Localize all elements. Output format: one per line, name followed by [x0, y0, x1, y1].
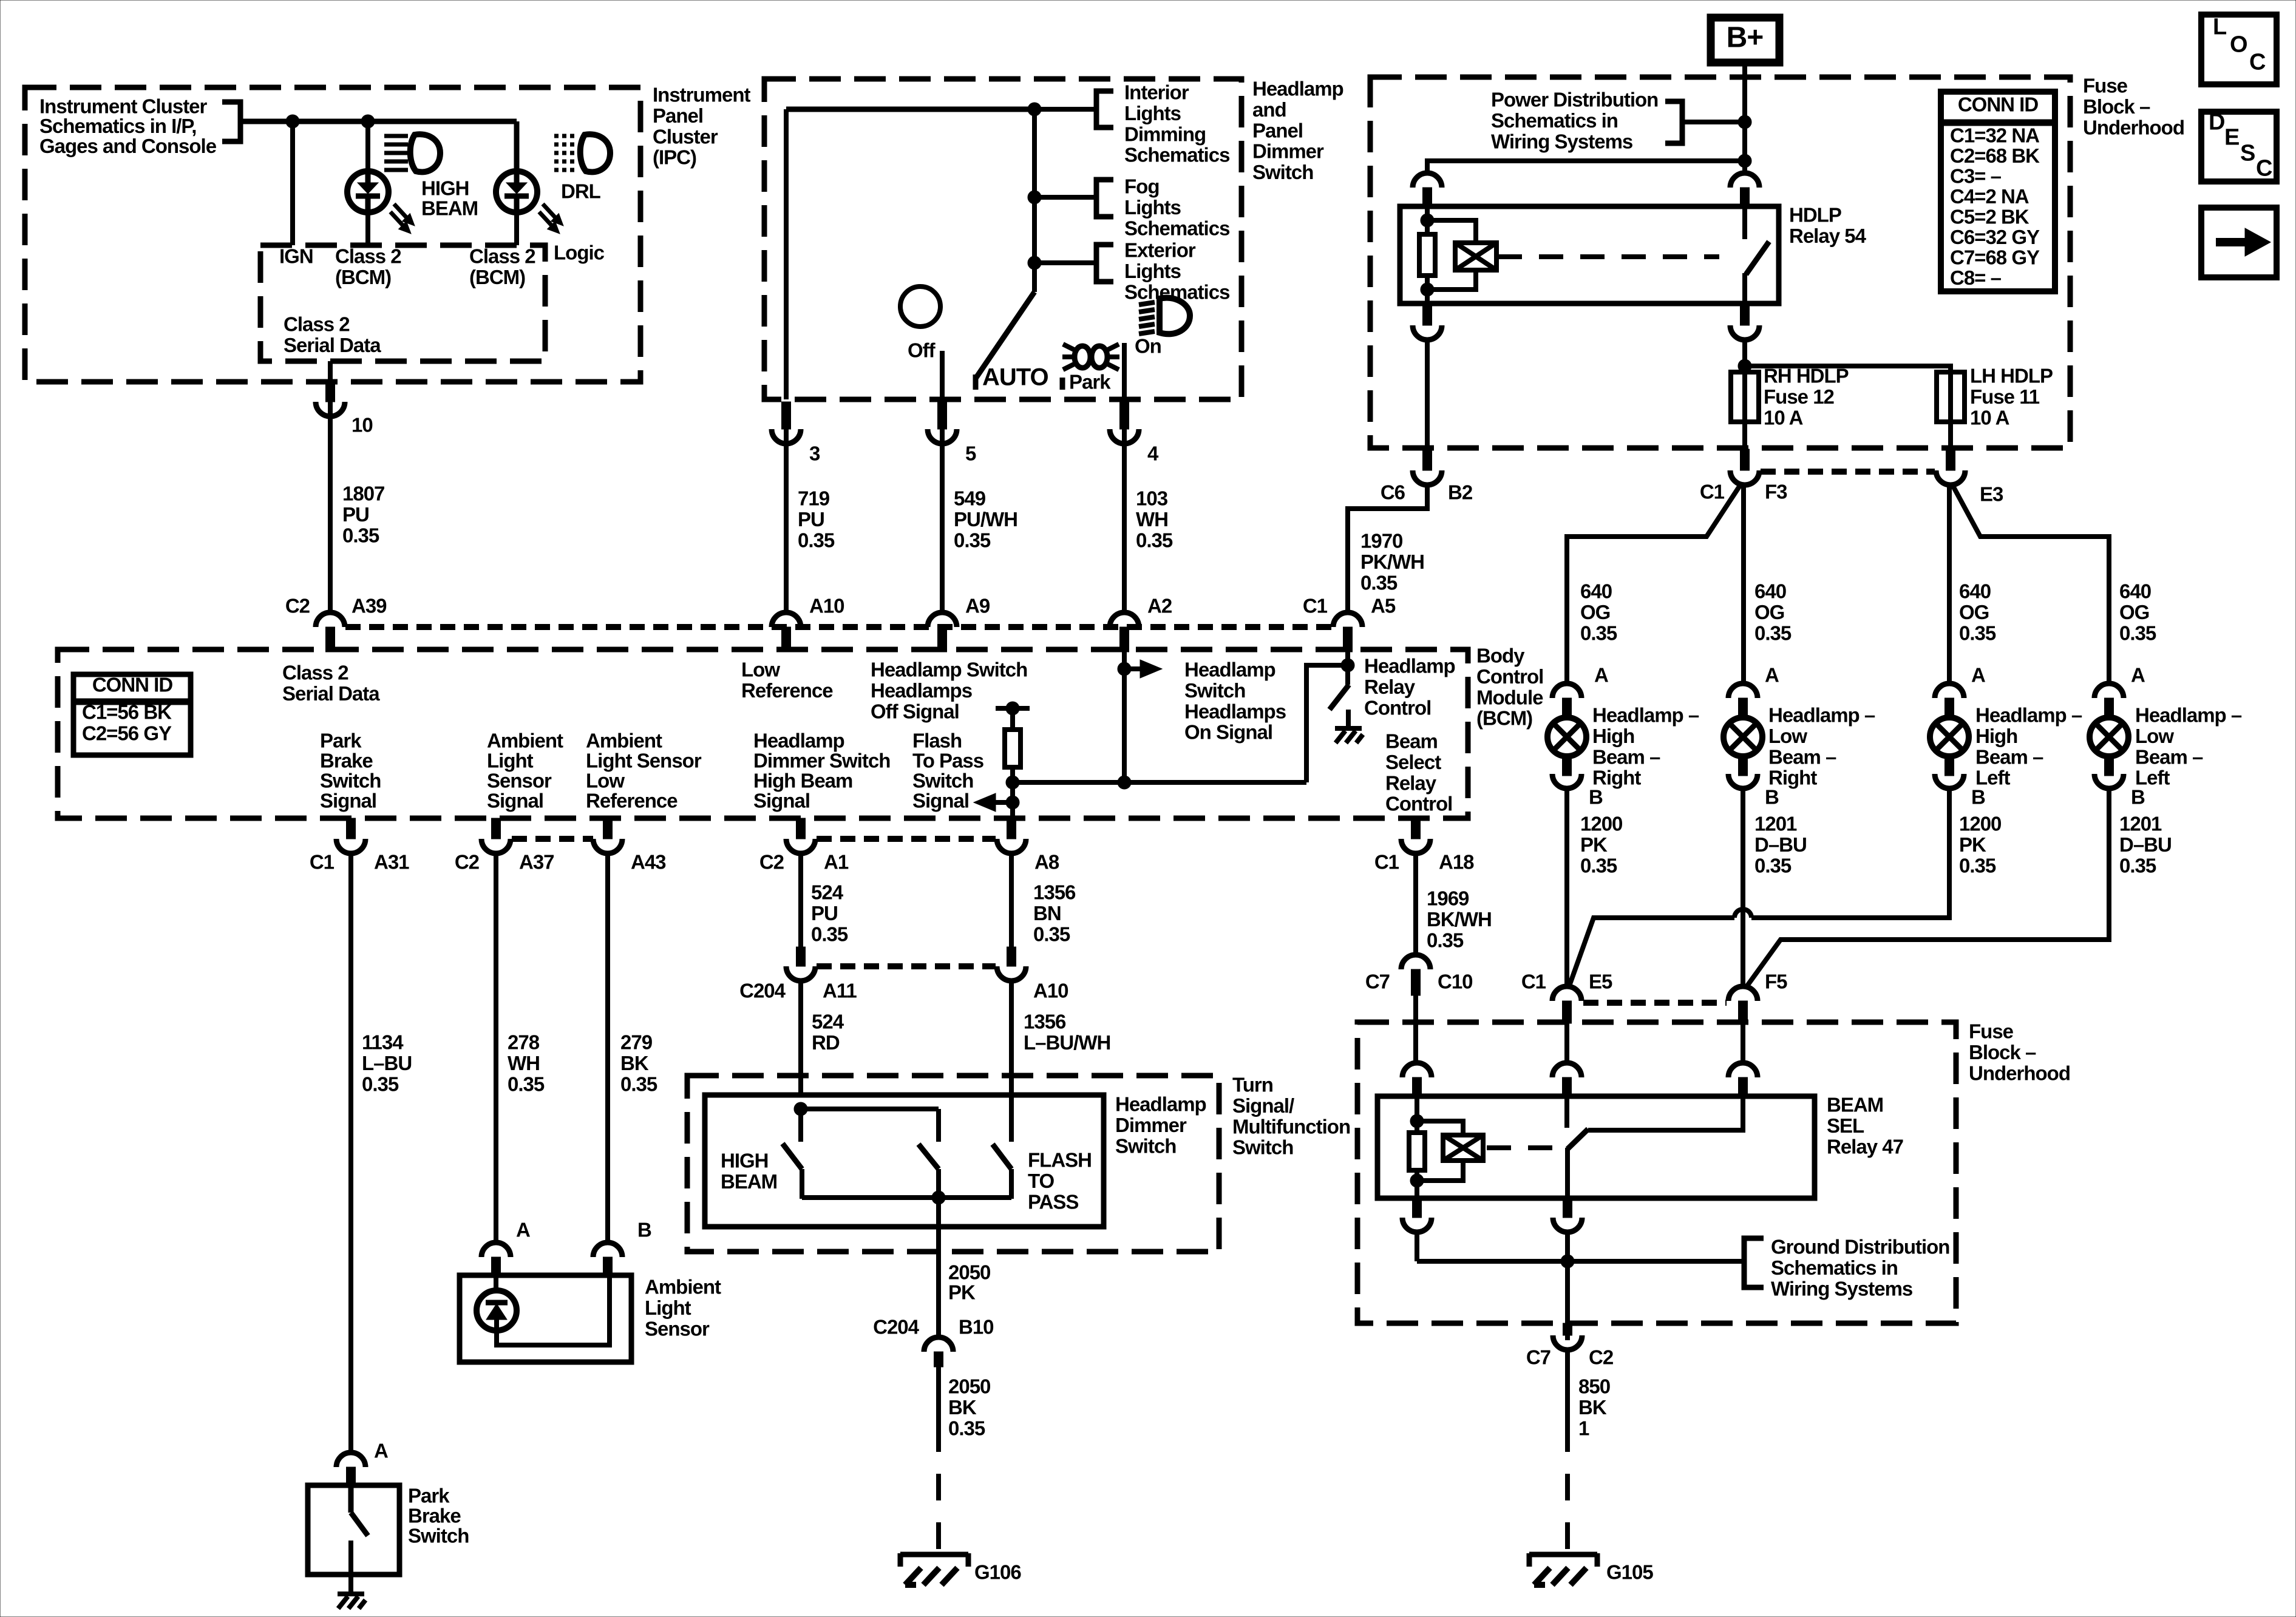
svg-text:On: On — [1135, 335, 1161, 358]
contact: middle fixed — [936, 1109, 941, 1142]
wire 1970 PK/WH 0.35 — [1348, 485, 1427, 614]
connector C7/C2 — [1563, 1323, 1572, 1335]
relay box: BEAM SEL Relay 47 — [1377, 1096, 1815, 1198]
connector C1/E5 — [1552, 986, 1581, 1001]
wire 1356 BN 0.35 — [1009, 853, 1014, 948]
wire 549 PU/WH 0.35 — [940, 429, 945, 614]
connector pin 4 (stub+cup) — [1120, 402, 1129, 429]
wire: IGN drop — [290, 121, 295, 245]
wire 1969 BK/WH 0.35 — [1413, 853, 1418, 955]
svg-text:4: 4 — [1147, 442, 1159, 465]
node: exterior lights tap — [1028, 256, 1041, 269]
svg-text:Logic: Logic — [554, 242, 605, 264]
node: fuse feed tap — [1738, 359, 1751, 373]
off-page bracket interior lights — [1096, 91, 1113, 127]
wire: low beam left return — [1747, 788, 2109, 986]
wire: F3 branch to high beam right — [1567, 484, 1741, 685]
wire: dashed ground drop (G106) — [936, 1452, 941, 1554]
wire hop over low beam right return — [1734, 909, 1751, 918]
power feed B+ — [1711, 18, 1779, 63]
node: interior lights tap — [1028, 103, 1041, 116]
contact: flash to pass fixed — [1009, 1096, 1014, 1142]
wire: switch wiper riser — [1032, 109, 1037, 292]
node: relay 54 coil top — [1421, 214, 1434, 227]
svg-text:10: 10 — [352, 414, 373, 436]
svg-text:C6: C6 — [1381, 481, 1405, 504]
inline connector bus (BCM C1/C2) — [345, 624, 1333, 630]
wire 2050 BK 0.35 — [936, 1367, 941, 1452]
wire: relay 47 common exit — [1565, 1148, 1570, 1198]
node: junction HIGH BEAM branch — [361, 115, 375, 128]
off-page bracket ground distribution — [1744, 1238, 1764, 1287]
off-page bracket power distribution — [1665, 101, 1682, 143]
connector pin 10 (stub+cup) — [326, 382, 335, 402]
node: dimmer input junction — [794, 1102, 807, 1116]
component box: Headlamp Dimmer Switch — [705, 1095, 1104, 1227]
node: dimmer output junction — [932, 1191, 945, 1204]
connector pin: relay 54 switch feed — [1730, 173, 1759, 188]
arrow: flash to pass switch signal — [992, 800, 1013, 805]
contact: relay 54 switch top — [1742, 206, 1747, 239]
connector C1/A5 — [1333, 612, 1362, 627]
position Off circle — [900, 286, 940, 327]
wire: driver ground lead — [1346, 710, 1351, 727]
wire: IPC feed bus — [240, 119, 517, 124]
svg-text:E5: E5 — [1589, 971, 1612, 993]
svg-text:C1=32 NAC2=68 BKC3= –C4=2 NAC5: C1=32 NAC2=68 BKC3= –C4=2 NAC5=2 BKC6=32… — [1950, 124, 2040, 290]
svg-text:C2: C2 — [759, 851, 784, 873]
wire: high beam left return — [1751, 788, 1949, 918]
svg-text:C: C — [2256, 156, 2272, 181]
off-page bracket to Instrument Cluster Schematics — [222, 102, 240, 141]
wire: C10 into fuse block — [1413, 1022, 1418, 1065]
svg-text:A9: A9 — [965, 595, 990, 617]
module box: Turn Signal/Multifunction Switch — [687, 1076, 1219, 1252]
wire: low beam right return — [1741, 788, 1745, 987]
svg-text:A18: A18 — [1439, 851, 1474, 873]
wire: Off contact / pin 5 drop — [940, 351, 945, 399]
fuse: RH HDLP Fuse 12 10A — [1731, 372, 1759, 422]
wire: coil pin drop — [1425, 206, 1430, 236]
inline connector bus A1-A8 — [817, 836, 996, 842]
table: CONN ID (BCM) — [73, 674, 191, 755]
wire: relay 47 coil branch top — [1417, 1121, 1463, 1136]
switch blade: park brake — [351, 1513, 368, 1536]
wire: relay 47 coil branch bottom — [1417, 1161, 1463, 1181]
inline connector bus A11-A10 — [817, 963, 996, 969]
connector C7/C10 — [1401, 955, 1430, 969]
wire: ground rail — [1417, 1259, 1744, 1264]
wire: HIGH BEAM LED drop — [365, 121, 370, 173]
wire: DRL branch corner — [514, 121, 520, 173]
node: ground rail junction — [1561, 1255, 1574, 1268]
svg-text:A: A — [1765, 664, 1779, 686]
svg-text:C: C — [2249, 50, 2266, 75]
wire: coil pin exit — [1425, 276, 1430, 303]
arrow: headlamp switch headlamps on signal — [1124, 666, 1144, 671]
dashed actuator link relay 47 — [1487, 1145, 1556, 1150]
switch blade: headlamp switch wiper — [976, 292, 1034, 378]
wire: resistor to rail — [1010, 767, 1015, 818]
svg-text:AUTO: AUTO — [982, 364, 1048, 391]
wire: On contact / pin 4 drop — [1122, 343, 1127, 399]
svg-text:HeadlampSwitchHeadlampsOn Sign: HeadlampSwitchHeadlampsOn Signal — [1184, 659, 1286, 744]
node: relay 47 coil bottom — [1410, 1174, 1424, 1187]
svg-text:A37: A37 — [519, 851, 554, 873]
svg-text:524RD: 524RD — [812, 1011, 844, 1054]
svg-text:278WH0.35: 278WH0.35 — [508, 1031, 545, 1096]
wire: relay 47 NO rail — [1588, 1096, 1743, 1130]
node: B+ tap 2 — [1738, 154, 1751, 168]
wire: fuse 12 out — [1742, 422, 1747, 450]
svg-text:B: B — [1589, 786, 1603, 808]
svg-text:C204: C204 — [739, 980, 786, 1002]
svg-text:IGN: IGN — [279, 245, 313, 268]
inline connector bus E5-F5 — [1583, 1000, 1727, 1006]
svg-text:A11: A11 — [823, 980, 857, 1002]
contact: park brake bottom — [348, 1541, 353, 1575]
connector C1/F3 — [1741, 449, 1750, 470]
wire 279 BK 0.35 — [605, 853, 610, 1243]
ground G105 — [1529, 1552, 1597, 1558]
svg-text:A10: A10 — [809, 595, 844, 617]
svg-text:C204: C204 — [873, 1316, 920, 1338]
svg-text:F3: F3 — [1765, 481, 1787, 503]
wire: high beam left return to E5 — [1569, 918, 1734, 986]
node: B+ tap 1 — [1738, 115, 1751, 129]
svg-text:D: D — [2209, 110, 2224, 135]
switch blade: relay 47 — [1567, 1129, 1588, 1149]
relay box: HDLP Relay 54 — [1400, 206, 1779, 303]
wire: E3 branch to low beam left — [1952, 484, 2109, 685]
wire: exterior lights branch — [1034, 260, 1096, 265]
switch blade: headlamp relay control driver — [1330, 685, 1349, 710]
contact: relay 47 common top — [1564, 1096, 1569, 1128]
connector C204/B10 — [924, 1337, 953, 1352]
svg-text:B10: B10 — [959, 1316, 994, 1338]
contact: high beam fixed — [798, 1109, 803, 1142]
svg-text:B+: B+ — [1727, 22, 1764, 54]
svg-text:Park: Park — [1069, 371, 1111, 393]
wire: relay 47 coil exit — [1415, 1170, 1419, 1198]
wire: dimmer common — [801, 1107, 939, 1111]
lamp: Headlamp High Beam Left — [1935, 683, 1964, 698]
svg-text:A2: A2 — [1147, 595, 1172, 617]
icon: park lamps — [1075, 346, 1090, 368]
svg-text:E: E — [2224, 125, 2239, 151]
connector pin: relay 47 coil out — [1413, 1198, 1422, 1218]
connector C204/A10 — [1007, 947, 1016, 966]
wire: coil branch bottom — [1427, 270, 1476, 290]
wire 524 PU 0.35 — [798, 853, 803, 948]
svg-text:L: L — [2213, 15, 2227, 40]
switch blade: middle — [919, 1144, 939, 1169]
connector pin: relay 54 coil out — [1423, 303, 1432, 325]
indicator LED DRL — [496, 171, 537, 212]
connector A1 (stub+cup) — [796, 818, 806, 839]
svg-text:B: B — [2131, 786, 2145, 808]
wire 850 BK 1 — [1565, 1350, 1570, 1452]
wire: F5 into fuse block — [1741, 1022, 1745, 1065]
fuse: LH HDLP Fuse 11 10A — [1937, 372, 1965, 422]
wire: F3 to low beam right — [1741, 485, 1746, 685]
connector pin: relay 47 NO — [1728, 1063, 1758, 1077]
svg-text:A43: A43 — [631, 851, 666, 873]
wire 1356 L-BU/WH — [1009, 981, 1014, 1096]
relay coil: BEAM SEL relay 47 — [1443, 1135, 1483, 1161]
wire 1134 L-BU 0.35 — [348, 853, 353, 1453]
connector A2 — [1110, 612, 1139, 627]
svg-text:O: O — [2230, 32, 2247, 58]
svg-text:A10: A10 — [1033, 980, 1068, 1002]
icon: DRL headlamp dotted — [554, 134, 578, 138]
ground G106 — [900, 1552, 968, 1558]
switch blade: HIGH BEAM — [783, 1144, 802, 1169]
svg-text:A5: A5 — [1371, 595, 1396, 617]
svg-text:C1: C1 — [1521, 971, 1546, 993]
wire: power distribution link — [1682, 120, 1745, 124]
ground (BCM driver) — [1335, 726, 1362, 731]
photodiode: ambient light sensor — [477, 1290, 517, 1331]
svg-text:C1: C1 — [310, 851, 335, 873]
switch blade: relay 54 — [1746, 242, 1769, 274]
connector pin: relay 47 coil — [1402, 1063, 1432, 1077]
wire: fuse 11 out — [1948, 422, 1953, 450]
connector A43 (stub+cup) — [603, 818, 613, 839]
svg-text:B: B — [1971, 786, 1985, 808]
svg-text:CONN ID: CONN ID — [1958, 93, 2039, 116]
ground (park brake) — [338, 1592, 364, 1596]
wire: interior lights branch — [1034, 107, 1096, 112]
legend box DESC — [2201, 112, 2277, 181]
svg-text:E3: E3 — [1980, 483, 2003, 506]
component box: Park Brake Switch — [308, 1485, 399, 1575]
wire 1807 PU 0.35 — [328, 402, 333, 614]
wire: dimmer output rail — [802, 1195, 1011, 1200]
wire: relay control contact — [1345, 669, 1350, 685]
svg-text:Instrument ClusterSchematics i: Instrument ClusterSchematics in I/P,Gage… — [39, 95, 217, 157]
node: flash-to-pass signal tap — [1006, 796, 1019, 809]
wire: rail riser to relay control — [1306, 665, 1348, 782]
connector A37 (stub+cup) — [492, 818, 501, 839]
svg-text:G106: G106 — [974, 1561, 1021, 1584]
svg-text:103WH0.35: 103WH0.35 — [1136, 487, 1173, 552]
connector A31 (stub+cup) — [347, 818, 356, 839]
contact: park brake top — [348, 1485, 354, 1513]
wire: A5 internal drop — [1345, 652, 1350, 669]
connector A18 (stub+cup) — [1411, 818, 1421, 839]
wire: high beam right return — [1564, 788, 1569, 987]
wire: below DRL LED — [514, 213, 519, 245]
wire: sensor internal return — [497, 1275, 610, 1345]
wire: coil branch top — [1427, 220, 1476, 243]
legend box LOC — [2201, 15, 2277, 84]
connector F5 — [1728, 986, 1758, 1001]
wire: relay 47 coil drop — [1415, 1096, 1419, 1134]
contact Park — [1060, 378, 1065, 390]
dashed actuator link relay 54 — [1498, 254, 1719, 259]
wire 278 WH 0.35 — [494, 853, 498, 1243]
node: on-signal tap — [1118, 662, 1131, 676]
svg-text:C10: C10 — [1438, 971, 1473, 993]
svg-text:C2: C2 — [285, 595, 310, 617]
module box: Instrument Panel Cluster (IPC) — [25, 87, 640, 382]
module box: Fuse Block - Underhood (top) — [1370, 77, 2070, 448]
svg-text:F5: F5 — [1765, 971, 1787, 993]
svg-text:S: S — [2240, 141, 2255, 166]
node: resistor rail junction — [1006, 776, 1019, 789]
wire: A2 internal drop — [1122, 652, 1127, 782]
off-page bracket fog lights — [1096, 180, 1113, 217]
light rays DRL — [543, 204, 557, 220]
legend box arrow — [2201, 208, 2277, 277]
svg-text:CONN ID: CONN ID — [92, 674, 173, 696]
svg-text:A39: A39 — [352, 595, 387, 617]
connector B (sensor) — [593, 1242, 622, 1257]
inline connector bus F3-E3 — [1761, 469, 1935, 475]
indicator LED HIGH BEAM — [347, 171, 389, 212]
resistor: relay 47 suppression — [1409, 1133, 1425, 1170]
node: junction IGN branch — [286, 115, 299, 128]
relay coil: HDLP relay 54 — [1455, 243, 1496, 270]
icon: high beam headlamp — [384, 134, 408, 138]
svg-text:A31: A31 — [374, 851, 409, 873]
connector pin: relay 47 common — [1552, 1063, 1581, 1077]
node: relay 47 coil top — [1410, 1114, 1424, 1128]
wire: switch common bus — [786, 107, 1034, 112]
wire: coil to ground rail — [1415, 1232, 1419, 1261]
svg-text:C2: C2 — [455, 851, 480, 873]
connector C6/B2 — [1423, 449, 1432, 470]
connector A9 — [928, 612, 957, 627]
svg-text:C1: C1 — [1374, 851, 1399, 873]
svg-text:C1: C1 — [1700, 481, 1725, 503]
wire: dashed ground drop (G105) — [1565, 1452, 1570, 1554]
node: fog lights tap — [1028, 191, 1041, 204]
lamp: Headlamp Low Beam Left — [2094, 683, 2124, 698]
svg-text:C7: C7 — [1526, 1346, 1550, 1369]
wire: below HIGH BEAM LED — [365, 213, 370, 245]
wire 103 WH 0.35 — [1122, 429, 1127, 614]
connector A (park brake switch) — [336, 1453, 365, 1467]
switch blade: FLASH TO PASS — [993, 1144, 1011, 1169]
wire: low reference drop (pin 3) — [784, 109, 789, 399]
off-page bracket exterior lights — [1096, 245, 1113, 282]
svg-text:B2: B2 — [1448, 481, 1473, 504]
svg-text:A1: A1 — [824, 851, 849, 873]
svg-text:C7: C7 — [1365, 971, 1390, 993]
wire: internal rail — [1013, 780, 1306, 785]
inline connector bus A37-A43 — [512, 836, 593, 842]
svg-text:A: A — [516, 1219, 530, 1241]
wire: fog lights branch — [1034, 195, 1096, 200]
connector pin: relay 47 common out — [1563, 1198, 1572, 1218]
node: headlamp relay control junction — [1341, 659, 1354, 672]
table: CONN ID (fuse block) — [1941, 92, 2055, 291]
svg-text:5: 5 — [965, 442, 976, 465]
connector pin: relay 54 coil feed — [1413, 173, 1442, 188]
wire: E5 into fuse block — [1564, 1022, 1569, 1065]
connector A8 (stub+cup) — [1007, 818, 1016, 839]
connector A10 — [772, 612, 801, 627]
svg-text:A: A — [374, 1440, 388, 1462]
connector E3 — [1946, 449, 1955, 470]
svg-text:A: A — [2131, 664, 2145, 686]
svg-text:C2: C2 — [1589, 1346, 1614, 1369]
svg-text:C1=56 BKC2=56 GY: C1=56 BKC2=56 GY — [82, 701, 172, 745]
node: on-signal rail junction — [1118, 776, 1131, 789]
wire 719 PU 0.35 — [784, 429, 789, 614]
icon: headlamps on — [1139, 302, 1155, 305]
svg-text:B: B — [1765, 786, 1779, 808]
svg-text:A8: A8 — [1034, 851, 1059, 873]
internal node T-bar above pull-up resistor — [996, 706, 1030, 711]
connector C204/A11 — [796, 947, 806, 966]
svg-text:B: B — [637, 1219, 651, 1241]
svg-text:A: A — [1594, 664, 1608, 686]
resistor: flash-to-pass pull-up — [1005, 730, 1021, 767]
svg-text:G105: G105 — [1606, 1561, 1653, 1584]
wire: relay 47 output drop — [1565, 1232, 1570, 1340]
svg-text:3: 3 — [809, 442, 820, 465]
wire: T-bar to resistor — [1010, 708, 1015, 731]
wire: relay 54 output — [1742, 340, 1747, 373]
connector C2/A39 — [316, 612, 345, 627]
wire: fuse 11 feed — [1745, 366, 1951, 373]
svg-text:Off: Off — [908, 339, 936, 362]
connector A (sensor) — [481, 1242, 511, 1257]
connector pin 3 (stub+cup) — [782, 402, 791, 429]
wire: relay 54 to C6/B2 — [1425, 340, 1430, 450]
wire: relay 54 switch exit — [1742, 273, 1747, 303]
module box: Body Control Module (BCM) — [58, 649, 1468, 818]
wire: park brake to ground — [348, 1575, 353, 1593]
component box: Ambient Light Sensor — [460, 1275, 631, 1362]
svg-text:A: A — [1971, 664, 1985, 686]
node: relay 54 coil bottom — [1421, 283, 1434, 296]
module box: Fuse Block - Underhood (bottom) — [1357, 1022, 1956, 1323]
contact AUTO — [973, 375, 979, 390]
resistor: relay 54 suppression — [1419, 234, 1435, 276]
wire 524 RD — [798, 981, 803, 1096]
svg-text:C1: C1 — [1303, 595, 1328, 617]
wire: sensor pin A internal — [494, 1275, 498, 1292]
wire: B+ feed — [1742, 63, 1747, 174]
svg-text:DRL: DRL — [561, 180, 601, 203]
wire: dimmer output drop — [936, 1198, 941, 1339]
lamp: Headlamp Low Beam Right — [1728, 683, 1758, 698]
wire: E3 to high beam left — [1947, 485, 1952, 685]
light rays HIGH BEAM — [394, 204, 409, 220]
module box: Headlamp and Panel Dimmer Switch — [764, 79, 1241, 399]
inner box: Class 2 Serial Data region — [260, 245, 545, 361]
connector pin: relay 54 switch out — [1741, 303, 1750, 325]
connector pin 5 (stub+cup) — [938, 402, 947, 429]
lamp: Headlamp High Beam Right — [1552, 683, 1581, 698]
wire: pin 10 lead — [328, 361, 333, 384]
wire: relay coil feed — [1427, 161, 1745, 174]
